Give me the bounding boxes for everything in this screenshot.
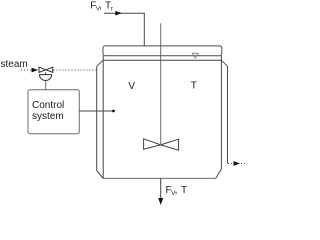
svg-text:steam: steam bbox=[1, 59, 28, 70]
control valve actuator dome bbox=[40, 75, 52, 81]
wire steam to jacket dotted bbox=[54, 69, 97, 71]
tank bottom edge bbox=[103, 177, 216, 179]
arrowhead feed bbox=[115, 11, 122, 16]
arrowhead product outlet bbox=[158, 198, 163, 205]
tank inner right wall bbox=[220, 56, 222, 169]
arrowhead steam into valve bbox=[32, 68, 39, 73]
wire steam supply dotted bbox=[21, 69, 32, 71]
agitator shaft bbox=[160, 23, 162, 144]
tank top-left chamfer bbox=[97, 60, 103, 66]
tank inner left wall bbox=[102, 56, 104, 179]
wire product outlet bbox=[160, 178, 162, 199]
svg-text:r: r bbox=[111, 6, 114, 13]
svg-text:,: , bbox=[99, 1, 102, 12]
arrowhead steam outlet bbox=[234, 161, 241, 166]
label product Fv, T bbox=[166, 185, 188, 197]
tank bottom-left chamfer bbox=[97, 171, 104, 179]
label feed Fv, Tr bbox=[90, 1, 113, 13]
tank jacket top edge bbox=[103, 59, 222, 61]
svg-text:,: , bbox=[175, 185, 178, 196]
svg-text:Control: Control bbox=[32, 100, 64, 111]
svg-text:V: V bbox=[128, 81, 135, 92]
tank lid bbox=[103, 46, 222, 56]
wire steam outlet dotted bbox=[228, 163, 234, 165]
valve stem bbox=[45, 72, 47, 74]
level mark nabla bbox=[192, 53, 198, 58]
tank bottom-right chamfer bbox=[216, 169, 222, 179]
svg-text:system: system bbox=[32, 111, 64, 122]
wire valve to controller bbox=[45, 81, 47, 90]
svg-text:T: T bbox=[191, 81, 197, 92]
tank top-right chamfer bbox=[222, 60, 228, 66]
control system box bbox=[28, 90, 79, 134]
node temperature sensor dot bbox=[112, 110, 115, 113]
control valve V1 body bbox=[39, 67, 53, 72]
svg-text:T: T bbox=[181, 185, 187, 196]
wire feed inlet bbox=[104, 13, 144, 46]
wire controller to temperature sensor bbox=[79, 110, 113, 112]
tank outer right wall bbox=[227, 66, 229, 163]
wire steam outlet dotted tail bbox=[241, 163, 245, 165]
agitator impeller bbox=[144, 139, 179, 150]
tank outer left wall bbox=[96, 66, 98, 170]
